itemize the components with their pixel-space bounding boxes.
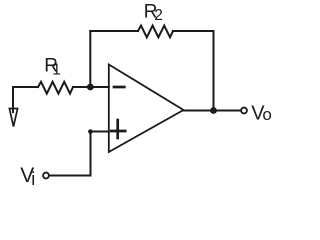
- wire ground corner to R1 left: [13, 86, 38, 88]
- node A: inverting-input / feedback junction: [87, 84, 94, 91]
- wire Vi horizontal: [49, 175, 91, 177]
- wire R1 right to inverting input: [73, 86, 109, 88]
- svg-text:o: o: [262, 105, 271, 124]
- wire feedback top left segment: [90, 30, 138, 32]
- wire output from apex: [184, 110, 242, 112]
- wire feedback top right segment: [173, 30, 214, 32]
- svg-text:i: i: [31, 169, 35, 189]
- wire feedback right leg down: [213, 31, 215, 111]
- inverting input pin marker (minus): [114, 86, 124, 89]
- resistor R2: [138, 26, 173, 38]
- wire to non-inverting input: [91, 131, 109, 133]
- terminal Vo: [241, 108, 247, 114]
- resistor R1: [38, 82, 73, 94]
- svg-text:2: 2: [154, 7, 163, 24]
- node B: output / feedback junction: [210, 107, 217, 114]
- non-inverting input pin marker (plus): [111, 120, 125, 138]
- wire Vi vertical up: [90, 132, 92, 176]
- node C: non-inverting wire corner blob: [88, 129, 93, 134]
- wire feedback tap up: [89, 31, 91, 87]
- terminal Vi: [43, 173, 49, 179]
- ground: [9, 87, 17, 127]
- op-amp U1: [109, 65, 184, 153]
- svg-text:1: 1: [52, 62, 61, 79]
